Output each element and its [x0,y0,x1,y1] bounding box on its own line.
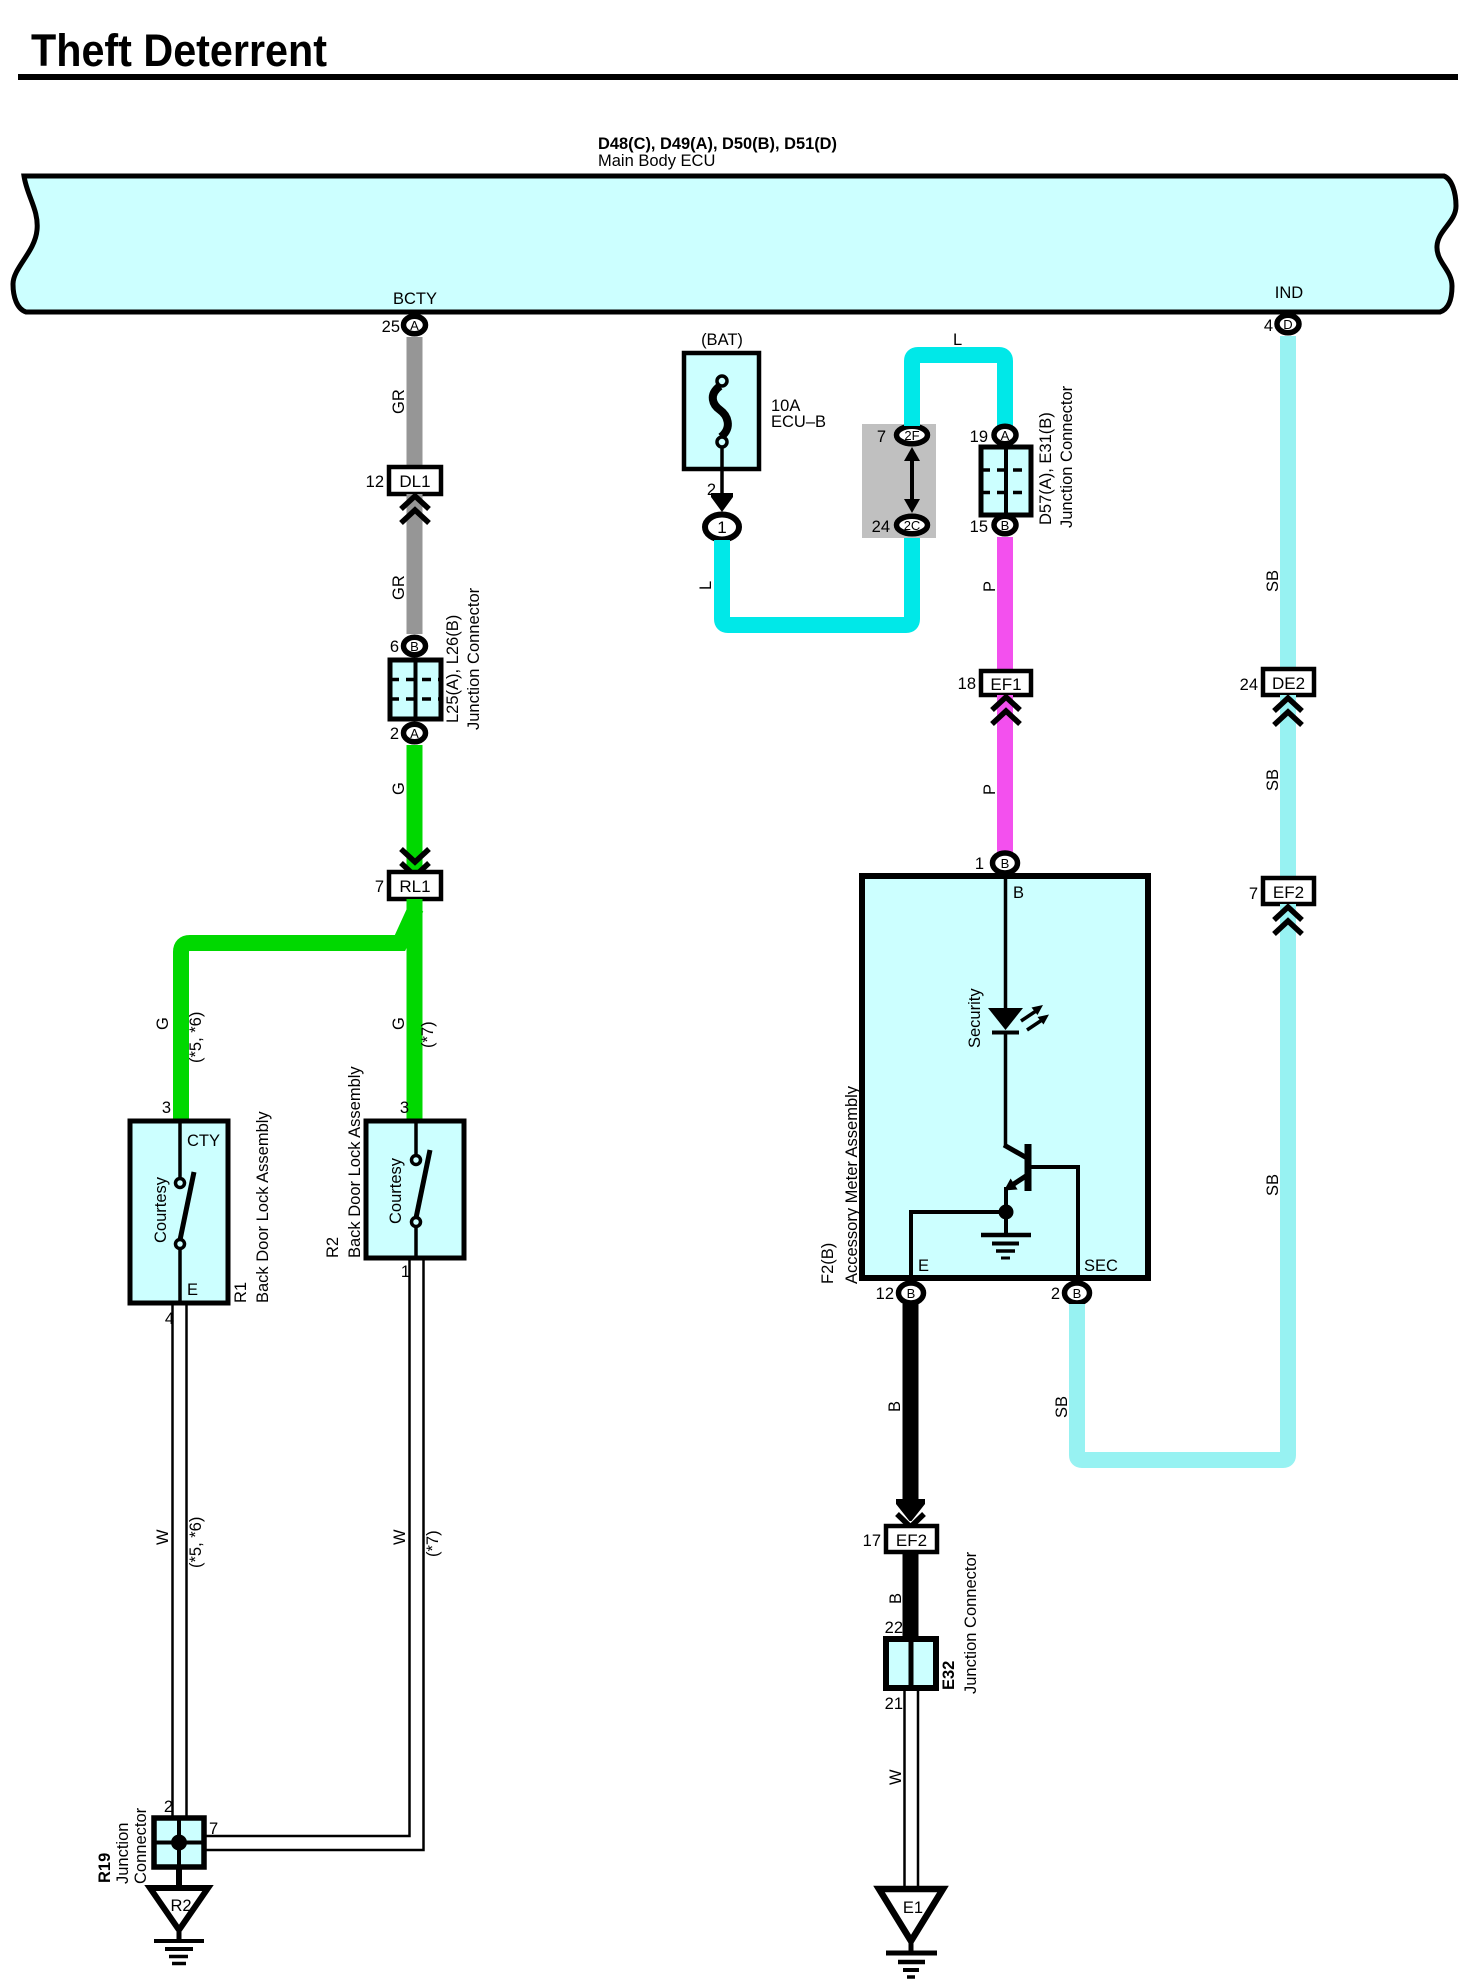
ground E1 [879,1889,943,1977]
svg-text:L: L [953,331,962,349]
svg-text:RL1: RL1 [399,877,430,896]
svg-text:ECU–B: ECU–B [771,413,826,431]
pin A circle (BCTY) [404,316,426,334]
svg-text:Junction Connector: Junction Connector [465,587,483,730]
wire SB middle (pale cyan) [1280,695,1296,878]
arrow above EF2 [896,1499,925,1521]
svg-text:25: 25 [382,318,400,336]
wire SB upper (pale cyan) [1280,336,1296,669]
svg-text:4: 4 [1264,317,1273,335]
component F2(B) Accessory Meter Assembly [862,876,1148,1278]
svg-text:1: 1 [717,518,726,537]
wire B to LED [1004,876,1008,1008]
svg-text:7: 7 [209,1820,218,1838]
switch R1 Back Door Lock Assembly [130,1121,228,1303]
svg-text:24: 24 [1240,676,1258,694]
svg-text:22: 22 [885,1619,903,1637]
Main Body ECU bus bar [13,176,1456,312]
chevron pair below DL1 (up) [401,496,429,523]
svg-text:21: 21 [885,1695,903,1713]
svg-text:6: 6 [390,638,399,656]
svg-text:R19: R19 [96,1853,114,1883]
svg-text:2F: 2F [904,428,919,443]
wire GR upper (gray) [407,337,423,467]
svg-text:Accessory Meter Assembly: Accessory Meter Assembly [843,1085,861,1284]
svg-text:W: W [391,1529,409,1545]
svg-text:F2(B): F2(B) [819,1243,837,1284]
connector RL1 [389,872,441,899]
svg-text:Back Door Lock Assembly: Back Door Lock Assembly [346,1066,364,1258]
svg-text:12: 12 [366,473,384,491]
svg-text:(BAT): (BAT) [701,331,743,349]
svg-text:A: A [1001,428,1010,443]
svg-text:A: A [410,726,419,741]
svg-text:P: P [981,784,999,795]
svg-text:Theft Deterrent: Theft Deterrent [31,25,327,76]
junction connector R19 [154,1818,204,1867]
svg-text:Junction Connector: Junction Connector [962,1551,980,1694]
junction connector L25(A), L26(B) [390,660,441,719]
connector EF1 [981,671,1031,695]
connector 2F oval [897,426,928,444]
svg-text:Junction Connector: Junction Connector [1058,385,1076,528]
svg-text:D48(C), D49(A), D50(B), D51(D): D48(C), D49(A), D50(B), D51(D) [598,135,837,153]
svg-text:Security: Security [966,988,984,1048]
junction connector D57(A), E31(B) [981,447,1031,515]
svg-text:E: E [918,1257,929,1275]
svg-text:2: 2 [1051,1285,1060,1303]
svg-text:B: B [1001,518,1010,533]
svg-text:A: A [410,318,419,333]
svg-text:18: 18 [958,675,976,693]
svg-text:R1: R1 [232,1282,250,1303]
ground R2 [150,1888,208,1964]
svg-text:(*7): (*7) [419,1021,437,1048]
svg-text:SEC: SEC [1084,1257,1118,1275]
chevron pair above RL1 (down) [401,849,429,876]
wire LED to transistor [1004,1032,1008,1146]
svg-text:IND: IND [1275,284,1304,302]
svg-text:SB: SB [1264,570,1282,592]
svg-text:B: B [1001,856,1010,871]
svg-text:D: D [1283,317,1292,332]
gray panel 2F/2C [862,424,936,538]
svg-text:Back Door Lock Assembly: Back Door Lock Assembly [254,1111,272,1303]
wire W from R1 (white double line) [173,1303,187,1818]
svg-text:1: 1 [975,855,984,873]
svg-text:GR: GR [390,575,408,600]
label Main Body ECU designators [598,135,837,170]
wire G upper (green) [407,745,423,872]
wire W from R2 (white double line) [204,1258,424,1850]
wire P upper (pink) [997,537,1013,671]
svg-text:DL1: DL1 [399,472,430,491]
connector 2C oval [897,516,928,534]
svg-text:(*5, *6): (*5, *6) [187,1012,205,1063]
svg-text:7: 7 [375,878,384,896]
switch R2 Back Door Lock Assembly [366,1121,464,1258]
wire L (cyan) lower loop [722,538,912,625]
connector EF2 (E pin path) [886,1526,937,1552]
svg-text:SB: SB [1264,1174,1282,1196]
wire SB lower loop (pale cyan) [1077,904,1288,1460]
arrow into connector 1 [711,493,733,512]
title Theft Deterrent [31,25,327,76]
svg-text:DE2: DE2 [1272,674,1305,693]
svg-text:2: 2 [164,1798,173,1816]
connector EF2 (IND path) [1263,878,1314,904]
wire GR lower (gray) [407,494,423,634]
pin B circle (L26) [404,637,426,655]
pin B oval (E31) [994,516,1016,534]
svg-text:E: E [187,1281,198,1299]
pin B oval (meter top) [993,853,1018,873]
chevron pair below DE2 (up) [1274,698,1302,725]
label 10A ECU-B [771,397,826,431]
LED Security [988,1005,1049,1033]
svg-text:Courtesy: Courtesy [152,1176,170,1243]
svg-text:24: 24 [872,518,890,536]
svg-text:Courtesy: Courtesy [387,1157,405,1224]
svg-text:G: G [390,782,408,795]
svg-text:(*7): (*7) [424,1530,442,1557]
chevron pair below EF2 right (up) [1274,907,1302,934]
wire fuse to connector 1 [720,447,724,500]
wire W to E1 (white double line) [905,1688,919,1887]
svg-text:2: 2 [390,725,399,743]
svg-text:W: W [154,1529,172,1545]
svg-text:(*5, *6): (*5, *6) [187,1517,205,1568]
svg-text:3: 3 [162,1099,171,1117]
connector DE2 [1263,669,1314,695]
connector 1 oval [705,515,739,540]
svg-text:CTY: CTY [187,1132,220,1150]
svg-text:SB: SB [1264,769,1282,791]
svg-text:B: B [410,639,419,654]
connector DL1 [389,467,441,494]
wire L (cyan) upper loop [912,355,1005,426]
svg-text:GR: GR [390,389,408,414]
svg-text:R2: R2 [170,1897,191,1915]
svg-text:EF1: EF1 [990,675,1021,694]
pin B oval (SEC pin) [1065,1283,1090,1303]
chevron above EF2 (down) [897,1514,924,1527]
svg-text:L: L [697,581,715,590]
pin A oval (D57) [994,426,1016,444]
fuse 10A ECU-B [684,353,759,469]
junction connector E32 [886,1639,936,1688]
svg-text:7: 7 [1249,885,1258,903]
svg-text:17: 17 [863,1532,881,1550]
svg-text:W: W [887,1769,905,1785]
chevron pair below EF1 (up) [992,697,1020,724]
svg-text:R2: R2 [324,1237,342,1258]
svg-text:BCTY: BCTY [393,290,437,308]
svg-text:19: 19 [970,428,988,446]
svg-text:B: B [1013,884,1024,902]
svg-text:Main Body ECU: Main Body ECU [598,152,715,170]
pin D circle (IND) [1277,315,1299,333]
svg-text:3: 3 [400,1099,409,1117]
transistor (meter output) [1004,1144,1078,1275]
pin B oval (E pin) [899,1283,924,1303]
svg-text:EF2: EF2 [1273,883,1304,902]
internal ground (meter) [981,1212,1031,1258]
svg-text:B: B [1073,1286,1082,1301]
svg-text:2C: 2C [904,518,921,533]
svg-text:SB: SB [1053,1396,1071,1418]
svg-text:E1: E1 [903,1899,923,1917]
svg-text:EF2: EF2 [896,1531,927,1550]
wire B lower (black) [903,1552,919,1639]
svg-text:G: G [154,1017,172,1030]
svg-text:15: 15 [970,518,988,536]
svg-text:L25(A), L26(B): L25(A), L26(B) [444,615,462,723]
title underline [18,74,1458,80]
svg-text:B: B [886,1401,904,1412]
wire G to R2 (green) [407,899,423,1121]
svg-text:E32: E32 [940,1661,958,1690]
svg-text:Connector: Connector [132,1807,150,1884]
wire P lower (pink) [997,695,1013,852]
wire G branch to R1 (green) [181,908,416,1121]
svg-text:7: 7 [877,428,886,446]
node emitter junction dot [999,1205,1014,1220]
svg-text:B: B [887,1593,905,1604]
svg-text:12: 12 [876,1285,894,1303]
svg-text:Junction: Junction [114,1823,132,1884]
svg-text:B: B [907,1286,916,1301]
wire B upper (black) [903,1304,919,1502]
svg-text:D57(A), E31(B): D57(A), E31(B) [1037,412,1055,525]
pin A circle (L25) [404,724,426,742]
svg-text:P: P [981,581,999,592]
svg-text:G: G [390,1017,408,1030]
wire to ground R2 [176,1867,182,1890]
wire emitter to E pin [911,1212,1006,1278]
double arrow between 2F and 2C [904,447,920,513]
